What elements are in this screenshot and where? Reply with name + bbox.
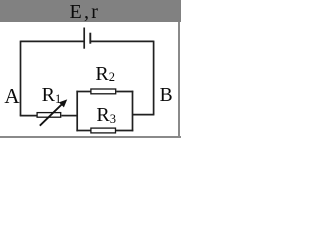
right gray border xyxy=(178,22,180,136)
rheostat arrowhead xyxy=(59,99,67,107)
wire: R3 to right bar xyxy=(116,130,133,132)
bottom gray separator line xyxy=(0,136,181,138)
node bar: right junction of parallel pair xyxy=(132,91,134,132)
wire: top left horizontal (to battery long plate) xyxy=(21,40,85,42)
label E , r xyxy=(70,2,98,22)
wire: R1 to left junction bar xyxy=(62,115,78,117)
wire: left bar to R2 xyxy=(76,91,90,93)
battery U1 short plate xyxy=(89,33,91,44)
resistor R1 label xyxy=(42,85,62,105)
node bar: left junction of parallel pair xyxy=(76,91,78,132)
wire: right bar to right vertical xyxy=(133,114,155,116)
wire: left vertical xyxy=(20,41,22,116)
battery U1 long plate xyxy=(83,28,85,49)
header gray bar xyxy=(0,0,181,22)
wire: top right horizontal (battery short plate to right corner) xyxy=(90,40,153,42)
resistor R3 box xyxy=(91,128,116,133)
wire: left bar to R3 xyxy=(76,130,90,132)
resistor R2 box xyxy=(91,89,116,94)
resistor R1 box xyxy=(37,113,61,118)
rheostat arrow through R1 xyxy=(40,104,63,126)
resistor R3 label xyxy=(96,105,116,125)
wire: right vertical xyxy=(153,41,155,115)
wire: bottom left horizontal (left vertical to R1) xyxy=(20,115,37,117)
resistor R2 label xyxy=(95,64,115,84)
wire: R2 to right bar xyxy=(116,91,133,93)
node A label xyxy=(4,86,19,107)
node B label xyxy=(160,86,173,106)
